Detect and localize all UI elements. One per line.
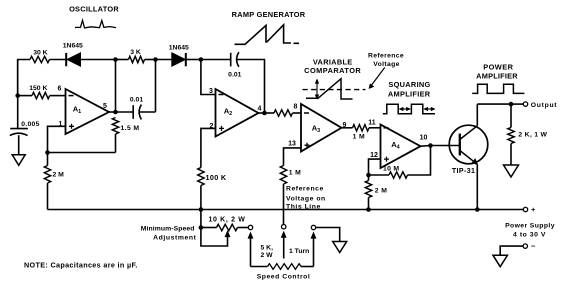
wire node C down to A2 pin 3 (201, 60, 216, 95)
wire 2M to bottom bus (368, 198, 370, 210)
label 100 K (206, 173, 227, 182)
wire collector rail to output node (477, 103, 511, 105)
resistor 2M (A4) (365, 181, 371, 198)
svg-text:1 M: 1 M (289, 170, 301, 177)
svg-text:RAMP GENERATOR: RAMP GENERATOR (232, 10, 306, 19)
svg-text:1 Turn: 1 Turn (289, 248, 309, 255)
node C (ramp integrator input) (199, 57, 204, 62)
wire node C to capacitor C3 (201, 59, 231, 61)
svg-text:3: 3 (209, 88, 213, 95)
resistor 2M (A1) (44, 166, 50, 184)
pin 13 label (288, 141, 296, 148)
resistor 1.5M (112, 118, 118, 135)
wire 10M to A4 output node (408, 146, 431, 176)
label 10 M (383, 166, 399, 173)
svg-text:Voltage: Voltage (373, 61, 400, 68)
label 30 K (33, 49, 47, 56)
wire A4 output to node I (421, 145, 431, 148)
node N (10K pot left terminal) (199, 225, 204, 230)
svg-text:2 M: 2 M (375, 187, 388, 194)
resistor 100K (198, 168, 204, 186)
ground G3 (speed control) (333, 242, 347, 253)
node D (150K / 0.005 junction) (15, 93, 20, 98)
5K pot left arm (arrow up to circle 1) (248, 232, 253, 266)
svg-text:0.01: 0.01 (130, 96, 143, 103)
pin 6 label (58, 85, 62, 92)
svg-text:Power Supply: Power Supply (505, 222, 555, 229)
wire node H to 2M (368, 175, 370, 181)
wire node I to Q1 base (431, 145, 460, 147)
label 1N645 (D1) (63, 43, 83, 50)
label 1.5 M (121, 125, 140, 132)
bottom bus wire (reference voltage line) (48, 209, 524, 211)
terminal Output (open circle) (523, 102, 527, 106)
svg-text:30 K: 30 K (33, 49, 47, 56)
pin 9 label (343, 122, 347, 129)
resistor 150K (32, 92, 50, 98)
op-amp A2 (216, 89, 259, 137)
label 0.005 (21, 121, 40, 128)
10K wiper arm (arrow to resistor, tied to node N) (201, 228, 230, 247)
squaring amplifier pulse waveform icon (variable width pulses) (383, 104, 435, 114)
wire node G to R6 (265, 112, 275, 114)
5K pot right arm (arrow up to circle 3) (311, 232, 316, 266)
node H (10M / 2M junction) (366, 173, 371, 178)
label SQUARING AMPLIFIER (388, 80, 431, 99)
resistor 2K 1W (508, 128, 514, 144)
wire node E to capacitor C2 (116, 111, 134, 113)
wire node F to 2M (47, 153, 49, 166)
svg-text:AMPLIFIER: AMPLIFIER (476, 72, 518, 81)
wire top-left corner to 30K (18, 60, 30, 96)
wire A3 pin 13 to 1M (284, 148, 302, 166)
resistor 3K (129, 56, 145, 62)
wire node J to 2K (510, 104, 512, 127)
label 2 K, 1 W (518, 132, 547, 139)
label RAMP GENERATOR (232, 10, 306, 19)
node J (output node) (509, 102, 514, 107)
wire A4 pin 12 to node H (369, 159, 381, 175)
reference voltage pointer arrow (369, 68, 385, 89)
label A1 (73, 105, 81, 116)
5K wiper arm (arrow up to circle 2) (281, 232, 286, 259)
label A3 (312, 124, 320, 135)
terminal circle 3 (5K right) (311, 225, 315, 229)
wire 150K to A1 pin 6 (50, 95, 66, 97)
resistor 1M (reference divider) (280, 166, 286, 185)
pin 2 label (210, 123, 214, 130)
label OSCILLATOR (69, 5, 119, 14)
wire node A to 3K (116, 59, 129, 61)
label 150 K (29, 85, 47, 92)
resistor R6 (A2 to A3) (274, 110, 293, 116)
wire Q1 collector up (476, 104, 478, 126)
wire minus terminal to ground (500, 246, 523, 255)
label Minimum-Speed Adjustment (141, 226, 197, 242)
oscillator spike waveform icon (75, 20, 116, 28)
node E (A1 output) (113, 110, 118, 115)
wire 100K to bottom bus (200, 186, 202, 210)
diode D1 1N645 (pointing left) (66, 53, 80, 67)
label POWER AMPLIFIER (476, 63, 518, 81)
label 1 M (A3-A4) (353, 133, 365, 140)
label A2 (224, 107, 232, 118)
svg-text:1N645: 1N645 (169, 44, 189, 51)
power amplifier square waveform icon (472, 84, 524, 93)
wire 1M to A4 pin 11 (369, 127, 381, 129)
svg-text:Minimum-Speed: Minimum-Speed (141, 226, 195, 233)
wire R6 to A3 pin 8 (293, 112, 302, 114)
wire node B to diode D2 (156, 59, 172, 61)
svg-text:Voltage on: Voltage on (286, 195, 326, 202)
wire D2 to node C (186, 59, 201, 61)
svg-text:Speed Control: Speed Control (257, 273, 311, 280)
op-amp A3 (301, 104, 342, 152)
svg-text:4: 4 (258, 106, 262, 113)
potentiometer 10K 2W (resistor body) (217, 224, 238, 230)
wire A2 output to node G (259, 112, 265, 114)
svg-text:0.005: 0.005 (21, 121, 40, 128)
op-amp A4 (381, 125, 421, 169)
label 5 K, 2 W (261, 245, 274, 260)
op-amp A1 (66, 89, 110, 134)
pin 1 label (59, 121, 63, 128)
svg-text:5 K,: 5 K, (261, 245, 274, 252)
label - (supply minus) (531, 242, 536, 251)
wire C1 to ground (18, 135, 20, 155)
terminal + power supply (open circle) (523, 207, 527, 211)
svg-text:6: 6 (58, 85, 62, 92)
label 1 M (reference) (289, 170, 301, 177)
svg-text:AMPLIFIER: AMPLIFIER (388, 90, 431, 99)
svg-text:TIP-31: TIP-31 (452, 168, 475, 175)
svg-text:Reference: Reference (286, 185, 324, 192)
terminal circle 2 (5K wiper) (282, 225, 286, 229)
pin 11 label (368, 119, 376, 126)
wire bus node L down to pot node (200, 210, 202, 228)
svg-text:2 W: 2 W (261, 252, 274, 259)
label Reference Voltage on This Line (286, 185, 326, 210)
label 3 K (130, 49, 141, 56)
terminal circle 1 (10K right / 5K left) (248, 225, 252, 229)
node F (2M junction) (45, 150, 50, 155)
label 10 K, 2 W (209, 216, 246, 223)
label A4 (391, 140, 400, 151)
pin 5 label (103, 103, 107, 110)
wire node D to 150K (18, 95, 32, 97)
label Power Supply 4 to 30 V (505, 222, 555, 238)
pin 12 label (370, 152, 378, 159)
svg-text:1 M: 1 M (353, 133, 365, 140)
label 0.01 (C2) (130, 96, 143, 103)
transistor Q1 TIP-31 (NPN) (449, 125, 488, 165)
pin 4 label (258, 106, 262, 113)
capacitor C1 0.005 (10, 96, 28, 136)
svg-text:100 K: 100 K (206, 173, 227, 182)
svg-text:2 K, 1 W: 2 K, 1 W (518, 132, 547, 139)
resistor 1M (A3 to A4) (353, 125, 370, 131)
node G (A2 output) (262, 111, 267, 116)
capacitor C3 0.01 (A2 feedback) (231, 52, 239, 67)
wire 3K to node B (145, 59, 156, 61)
svg-text:1.5 M: 1.5 M (121, 125, 140, 132)
pin 10 label (420, 135, 428, 142)
svg-text:NOTE: Capacitances are in µF.: NOTE: Capacitances are in µF. (24, 260, 138, 269)
resistor 10M (389, 172, 408, 178)
svg-text:12: 12 (370, 152, 378, 159)
resistor 30K (30, 56, 50, 62)
wire A2 pin 2 to 100K (201, 128, 216, 167)
label 1 Turn (289, 248, 309, 255)
label + (supply plus) (531, 205, 536, 214)
svg-text:11: 11 (368, 119, 376, 126)
svg-text:0.01: 0.01 (228, 72, 241, 79)
svg-text:5: 5 (103, 103, 107, 110)
wire 2M to bottom bus (47, 183, 49, 210)
label 1N645 (D2) (169, 44, 189, 51)
node B (top of 0.01 coupling) (153, 57, 158, 62)
label 2 M (A4) (375, 187, 388, 194)
wire A3 output to 1M (342, 127, 353, 129)
capacitor C2 0.01 (A1 output coupling) (133, 105, 141, 120)
svg-text:13: 13 (288, 141, 296, 148)
node A (top of A1 feedback) (113, 57, 118, 62)
svg-text:3 K: 3 K (130, 49, 141, 56)
svg-text:Reference: Reference (368, 53, 404, 60)
variable comparator waveform icon (ramps with dashed reference level) (303, 79, 366, 100)
wire 1M down across bus to speed control wiper (283, 184, 285, 225)
wire 1.5M to lower net (115, 134, 117, 153)
ramp generator sawtooth waveform icon (235, 25, 300, 45)
wire node J to output terminal (511, 103, 523, 105)
wire node N to 10K (201, 227, 217, 229)
node I (A4 output) (428, 143, 433, 148)
potentiometer 5K 2W Speed Control (resistor body) (251, 264, 314, 270)
svg-text:SQUARING: SQUARING (388, 80, 430, 89)
label Reference Voltage (annotation) (368, 53, 404, 68)
wire Q1 emitter to bottom bus (476, 164, 478, 209)
svg-text:OSCILLATOR: OSCILLATOR (69, 5, 119, 14)
svg-text:Output: Output (531, 102, 558, 109)
diode D2 1N645 (pointing right) (172, 53, 186, 67)
label TIP-31 (452, 168, 475, 175)
wire 10K to terminal circle 1 (238, 227, 249, 229)
svg-text:+: + (531, 205, 536, 214)
vertical wire node B down to capacitor C2 (155, 60, 157, 113)
pin 8 label (294, 104, 298, 111)
wire A1 output to node E (109, 111, 116, 113)
svg-text:150 K: 150 K (29, 85, 47, 92)
label VARIABLE COMPARATOR (304, 57, 361, 75)
svg-text:POWER: POWER (483, 63, 513, 72)
note text (24, 260, 138, 269)
node L (100K on bus) (199, 207, 204, 212)
ground G1 (below 0.005) (12, 155, 25, 166)
wire node H to 10M (369, 174, 390, 176)
label 2 M (A1) (53, 172, 65, 179)
wire circle 3 to ground (316, 228, 340, 242)
svg-text:10 M: 10 M (383, 166, 399, 173)
ground G2 (below 2K) (504, 165, 519, 177)
svg-text:1N645: 1N645 (63, 43, 83, 50)
svg-text:2 M: 2 M (53, 172, 65, 179)
ground G4 (supply minus) (493, 255, 508, 267)
wire 2K to ground (510, 144, 512, 166)
svg-text:10: 10 (420, 135, 428, 142)
node K (emitter on bus) (475, 207, 480, 212)
wire C3 to A2 output (right feedback leg) (237, 60, 265, 114)
label Output (531, 102, 558, 109)
svg-text:−: − (531, 242, 536, 251)
node M (2M on bus) (366, 207, 371, 212)
svg-text:4 to 30 V: 4 to 30 V (513, 231, 546, 238)
vertical wire node A down to A1 output node (115, 60, 117, 113)
wire left rail down to 150K node (17, 60, 19, 96)
label 0.01 (C3) (228, 72, 241, 79)
svg-text:10 K, 2 W: 10 K, 2 W (209, 216, 246, 223)
pin 3 label (209, 88, 213, 95)
svg-text:Adjustment: Adjustment (153, 235, 197, 242)
svg-text:8: 8 (294, 104, 298, 111)
wire D1 to node A (81, 59, 116, 61)
wire lower net (pin1 / 1.5M / 2M) (48, 152, 116, 154)
terminal - power supply (open circle) (523, 244, 527, 248)
label Speed Control (257, 273, 311, 280)
wire C2 to node B riser (139, 111, 156, 113)
svg-text:COMPARATOR: COMPARATOR (304, 66, 361, 75)
wire A1 pin 1 to lower net (48, 126, 66, 152)
wire 30K to diode D1 (50, 59, 67, 61)
